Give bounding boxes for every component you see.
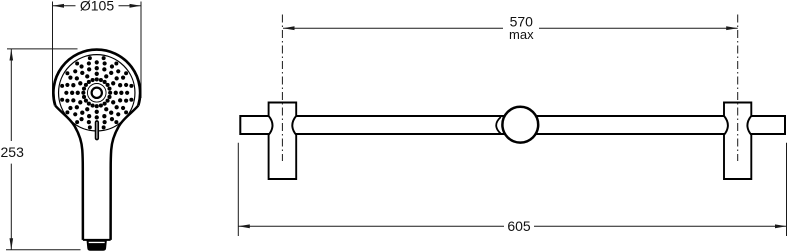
dim line diameter 105: [53, 2, 142, 99]
dim line 570 max: [283, 27, 738, 29]
inner ring circle: [87, 84, 106, 103]
spray mode slot: [96, 121, 99, 140]
left wall bracket: [269, 103, 297, 180]
slider sleeve arc: [496, 117, 501, 134]
left bracket centreline: [281, 15, 283, 162]
slider knob: [502, 107, 538, 143]
svg-text:Ø105: Ø105: [80, 0, 114, 14]
svg-text:max: max: [509, 27, 534, 42]
hand shower head outer rim: [53, 50, 140, 106]
right bracket centreline: [737, 15, 739, 162]
svg-text:605: 605: [507, 218, 531, 234]
hand shower handle: [55, 106, 138, 240]
face plate inner circle: [59, 55, 135, 131]
hose nut: [87, 241, 106, 251]
slide bar: [240, 116, 785, 134]
svg-text:253: 253: [1, 144, 25, 160]
centre hole: [92, 88, 102, 98]
right wall bracket: [724, 103, 751, 180]
dim line 253: [6, 49, 81, 250]
beaded centre ring: [81, 77, 112, 108]
dim line 605: [238, 143, 786, 236]
spray nozzle dots: [60, 56, 133, 129]
handle bottom cap: [83, 239, 111, 241]
